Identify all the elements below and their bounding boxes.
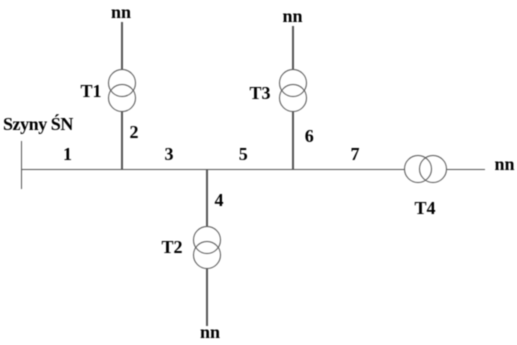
transformer T4 left winding <box>404 155 432 183</box>
node nn (above T3) <box>283 7 303 25</box>
transformer T4 right winding <box>419 155 447 183</box>
busbar tick (MV bus) <box>21 141 23 189</box>
wire nn to T1 <box>121 22 123 69</box>
wire bus to T2 (segment 4) <box>206 170 208 226</box>
label T4 <box>415 199 436 217</box>
node label 4 <box>215 191 224 209</box>
transformer T2 upper winding <box>193 226 221 254</box>
label T1 <box>81 82 102 100</box>
wire T3 to bus (segment 6) <box>292 112 294 170</box>
node label 6 <box>305 127 314 145</box>
transformer T1 upper winding <box>108 69 136 97</box>
node label 1 <box>63 145 72 163</box>
label T2 <box>162 238 183 256</box>
label T3 <box>250 84 271 102</box>
transformer T3 upper winding <box>279 69 307 97</box>
wire T4 to nn <box>447 169 485 171</box>
wire nn to T3 <box>292 26 294 69</box>
wire T1 to bus (segment 2) <box>121 112 123 170</box>
wire T2 to nn <box>206 269 208 326</box>
transformer T1 lower winding <box>108 84 136 112</box>
node label 5 <box>239 145 248 163</box>
node nn (below T2) <box>200 323 220 341</box>
node Szyny SN label <box>3 115 73 133</box>
node label 7 <box>351 145 360 163</box>
node label 2 <box>130 123 139 141</box>
transformer T2 lower winding <box>193 241 221 269</box>
node nn (right of T4) <box>495 155 515 173</box>
node label 3 <box>165 145 174 163</box>
transformer T3 lower winding <box>279 84 307 112</box>
wire main bus (segments 1-3-5-7) <box>21 169 404 171</box>
node nn (above T1) <box>111 3 131 21</box>
